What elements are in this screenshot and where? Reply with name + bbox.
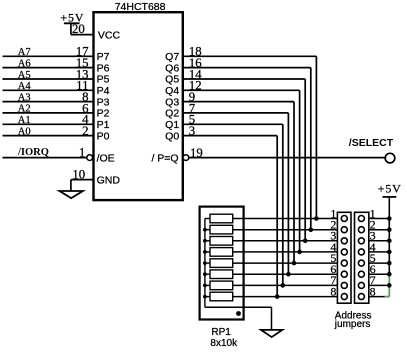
- svg-text:P0: P0: [97, 130, 110, 142]
- svg-text:A7: A7: [18, 47, 31, 58]
- svg-text:20: 20: [72, 22, 85, 36]
- svg-text:A0: A0: [18, 126, 31, 137]
- svg-text:A6: A6: [18, 58, 31, 69]
- svg-text:Q6: Q6: [165, 62, 179, 74]
- svg-text:8: 8: [330, 284, 336, 298]
- svg-text:P3: P3: [97, 96, 110, 108]
- svg-text:A2: A2: [18, 104, 31, 115]
- svg-text:2: 2: [82, 124, 88, 138]
- svg-text:/IORQ: /IORQ: [17, 147, 49, 158]
- svg-text:Q1: Q1: [165, 119, 179, 131]
- svg-text:GND: GND: [97, 174, 121, 186]
- svg-text:/OE: /OE: [97, 152, 115, 164]
- svg-text:A4: A4: [18, 81, 32, 92]
- svg-text:1: 1: [79, 145, 85, 159]
- svg-text:Q3: Q3: [165, 96, 179, 108]
- svg-text:Q5: Q5: [165, 74, 179, 86]
- svg-text:10: 10: [72, 167, 85, 181]
- svg-text:Q0: Q0: [165, 130, 179, 142]
- svg-text:8x10k: 8x10k: [210, 338, 238, 349]
- svg-text:RP1: RP1: [211, 327, 231, 338]
- svg-text:jumpers: jumpers: [334, 319, 371, 330]
- svg-text:A1: A1: [18, 115, 31, 126]
- svg-text:VCC: VCC: [98, 29, 121, 41]
- svg-text:Q2: Q2: [165, 108, 179, 120]
- svg-text:/SELECT: /SELECT: [349, 137, 394, 149]
- svg-text:P6: P6: [97, 62, 110, 74]
- svg-text:Q4: Q4: [165, 85, 179, 97]
- svg-text:A5: A5: [18, 70, 31, 81]
- svg-text:P5: P5: [97, 74, 110, 86]
- svg-text:+5V: +5V: [378, 182, 402, 196]
- svg-text:74HCT688: 74HCT688: [115, 1, 166, 13]
- svg-text:P1: P1: [97, 119, 110, 131]
- svg-text:3: 3: [189, 124, 195, 138]
- svg-text:P4: P4: [97, 85, 110, 97]
- svg-text:/ P=Q: / P=Q: [151, 152, 178, 164]
- svg-text:P2: P2: [97, 108, 110, 120]
- svg-text:Q7: Q7: [165, 51, 179, 63]
- svg-text:P7: P7: [97, 51, 110, 63]
- svg-text:A3: A3: [18, 92, 31, 103]
